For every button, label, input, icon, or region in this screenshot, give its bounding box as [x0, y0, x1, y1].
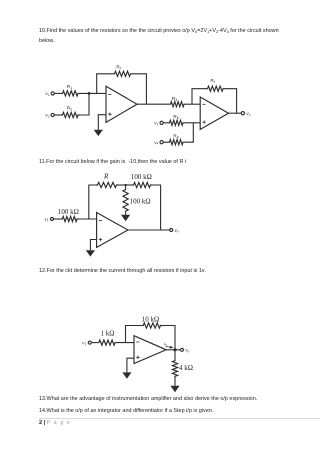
- resistor 1 kOhm (circuit 3): [97, 330, 116, 346]
- resistor R (circuit 2): [96, 173, 118, 188]
- svg-text:100 kΩ: 100 kΩ: [130, 197, 151, 205]
- node V3 input terminal: [154, 120, 163, 126]
- resistor 10 kOhm (feedback, circuit 3): [142, 316, 162, 329]
- wire U2 output: [229, 112, 242, 114]
- wire R5 to opamp U2 plus input: [185, 122, 201, 124]
- resistor R2: [61, 106, 80, 118]
- current arrow io: [164, 341, 173, 349]
- wire V3 to R5: [163, 122, 168, 124]
- ground (U1 plus input): [94, 130, 103, 136]
- svg-text:R1: R1: [67, 84, 72, 90]
- svg-text:R5: R5: [173, 114, 178, 120]
- node output junction dot (circuit 3): [173, 348, 176, 351]
- wire R4 up to plus input node: [185, 123, 194, 142]
- svg-text:io: io: [164, 341, 167, 347]
- resistor R3: [169, 96, 186, 107]
- resistor 100 kOhm (top right, circuit 2): [131, 173, 152, 188]
- resistor 100 kOhm (input, circuit 2): [58, 208, 79, 221]
- svg-text:1 kΩ: 1 kΩ: [101, 330, 115, 338]
- wire U3 output: [128, 229, 170, 231]
- node V2 input terminal: [45, 113, 54, 119]
- node Vo output terminal (circuit 1): [241, 111, 251, 117]
- wire input resistor to opamp U3 inverting input: [79, 218, 97, 220]
- wire v1 to 1k resistor: [91, 342, 97, 344]
- resistor 100 kOhm (vertical, circuit 2): [123, 189, 151, 213]
- ground (U3 plus input): [86, 250, 95, 256]
- op-amp U1: [106, 86, 137, 122]
- node junction R1/R2: [88, 92, 91, 95]
- node T junction (circuit 2): [125, 184, 127, 186]
- svg-text:Vo: Vo: [246, 111, 251, 117]
- svg-text:v1: v1: [44, 218, 48, 223]
- wire V1 to R1: [54, 92, 61, 94]
- svg-text:R2: R2: [67, 106, 72, 112]
- resistor R5: [168, 114, 185, 125]
- resistor 4 kOhm (circuit 3): [172, 360, 193, 378]
- svg-text:R: R: [103, 173, 109, 181]
- resistor Rf (stage 1 feedback): [113, 65, 132, 77]
- svg-text:V2: V2: [45, 113, 50, 119]
- wire R1 to opamp U1 inverting input: [80, 92, 107, 94]
- resistor R1: [61, 84, 80, 96]
- svg-text:V3: V3: [154, 120, 159, 126]
- ground (T network, circuit 2): [121, 215, 130, 221]
- wire Rf2 to output node: [225, 89, 237, 114]
- wire Rf to output node: [132, 74, 146, 104]
- wire U1 output to R3: [137, 103, 169, 105]
- wire feedback left vertical: [97, 74, 113, 94]
- svg-text:100 kΩ: 100 kΩ: [131, 173, 152, 181]
- op-amp U4: [134, 336, 166, 364]
- wire V4 to R4: [163, 141, 168, 143]
- svg-text:R4: R4: [173, 133, 178, 139]
- node vo output terminal (circuit 3): [181, 348, 190, 353]
- op-amp U2: [200, 97, 228, 129]
- wire feedback left vertical (circuit 3): [126, 326, 142, 343]
- wire feedback left vertical (circuit 2): [89, 185, 96, 219]
- wire U1 plus input to ground: [98, 115, 106, 130]
- svg-text:Rf: Rf: [116, 65, 120, 71]
- wire R2 up to junction: [80, 93, 90, 115]
- op-amp U3: [97, 213, 128, 248]
- svg-text:Rf: Rf: [210, 78, 214, 84]
- node V4 input terminal: [154, 140, 163, 146]
- node v1 input terminal (circuit 2): [44, 218, 53, 223]
- node vo output terminal (circuit 2): [170, 229, 179, 234]
- svg-text:V4: V4: [154, 140, 159, 146]
- wire R3 to opamp U2 inverting input: [186, 103, 201, 105]
- svg-text:100 kΩ: 100 kΩ: [58, 208, 79, 216]
- svg-text:vo: vo: [175, 229, 179, 234]
- wire V2 to R2: [54, 114, 61, 116]
- svg-text:vo: vo: [185, 349, 189, 354]
- node v1 input terminal (circuit 3): [82, 341, 91, 346]
- ground (below 4k, circuit 3): [170, 386, 179, 392]
- wire 4k to ground stem: [174, 350, 176, 386]
- svg-text:R3: R3: [172, 96, 177, 102]
- wire U4 plus input to ground: [127, 358, 134, 372]
- wire feedback 2 left vertical: [192, 89, 206, 105]
- wire vertical resistor to ground stem: [125, 185, 127, 215]
- resistor R4: [168, 133, 185, 144]
- svg-text:4 kΩ: 4 kΩ: [179, 364, 193, 372]
- wire U4 output to node: [166, 349, 180, 351]
- node V1 input terminal: [45, 91, 54, 97]
- wire 10k to output node (circuit 3): [162, 326, 175, 350]
- wire v1 to 100k input resistor: [54, 218, 61, 220]
- svg-text:V1: V1: [45, 91, 50, 97]
- wire R to T junction: [118, 184, 132, 186]
- wire 1k to opamp U4 inverting input: [117, 342, 134, 344]
- svg-text:10 kΩ: 10 kΩ: [142, 316, 159, 324]
- ground (U4 plus input): [122, 372, 131, 378]
- svg-text:v1: v1: [82, 341, 86, 346]
- wire top rail to output node (circuit 2): [152, 185, 161, 230]
- wire U3 plus input to ground: [90, 240, 96, 251]
- resistor Rf (stage 2 feedback): [206, 78, 225, 91]
